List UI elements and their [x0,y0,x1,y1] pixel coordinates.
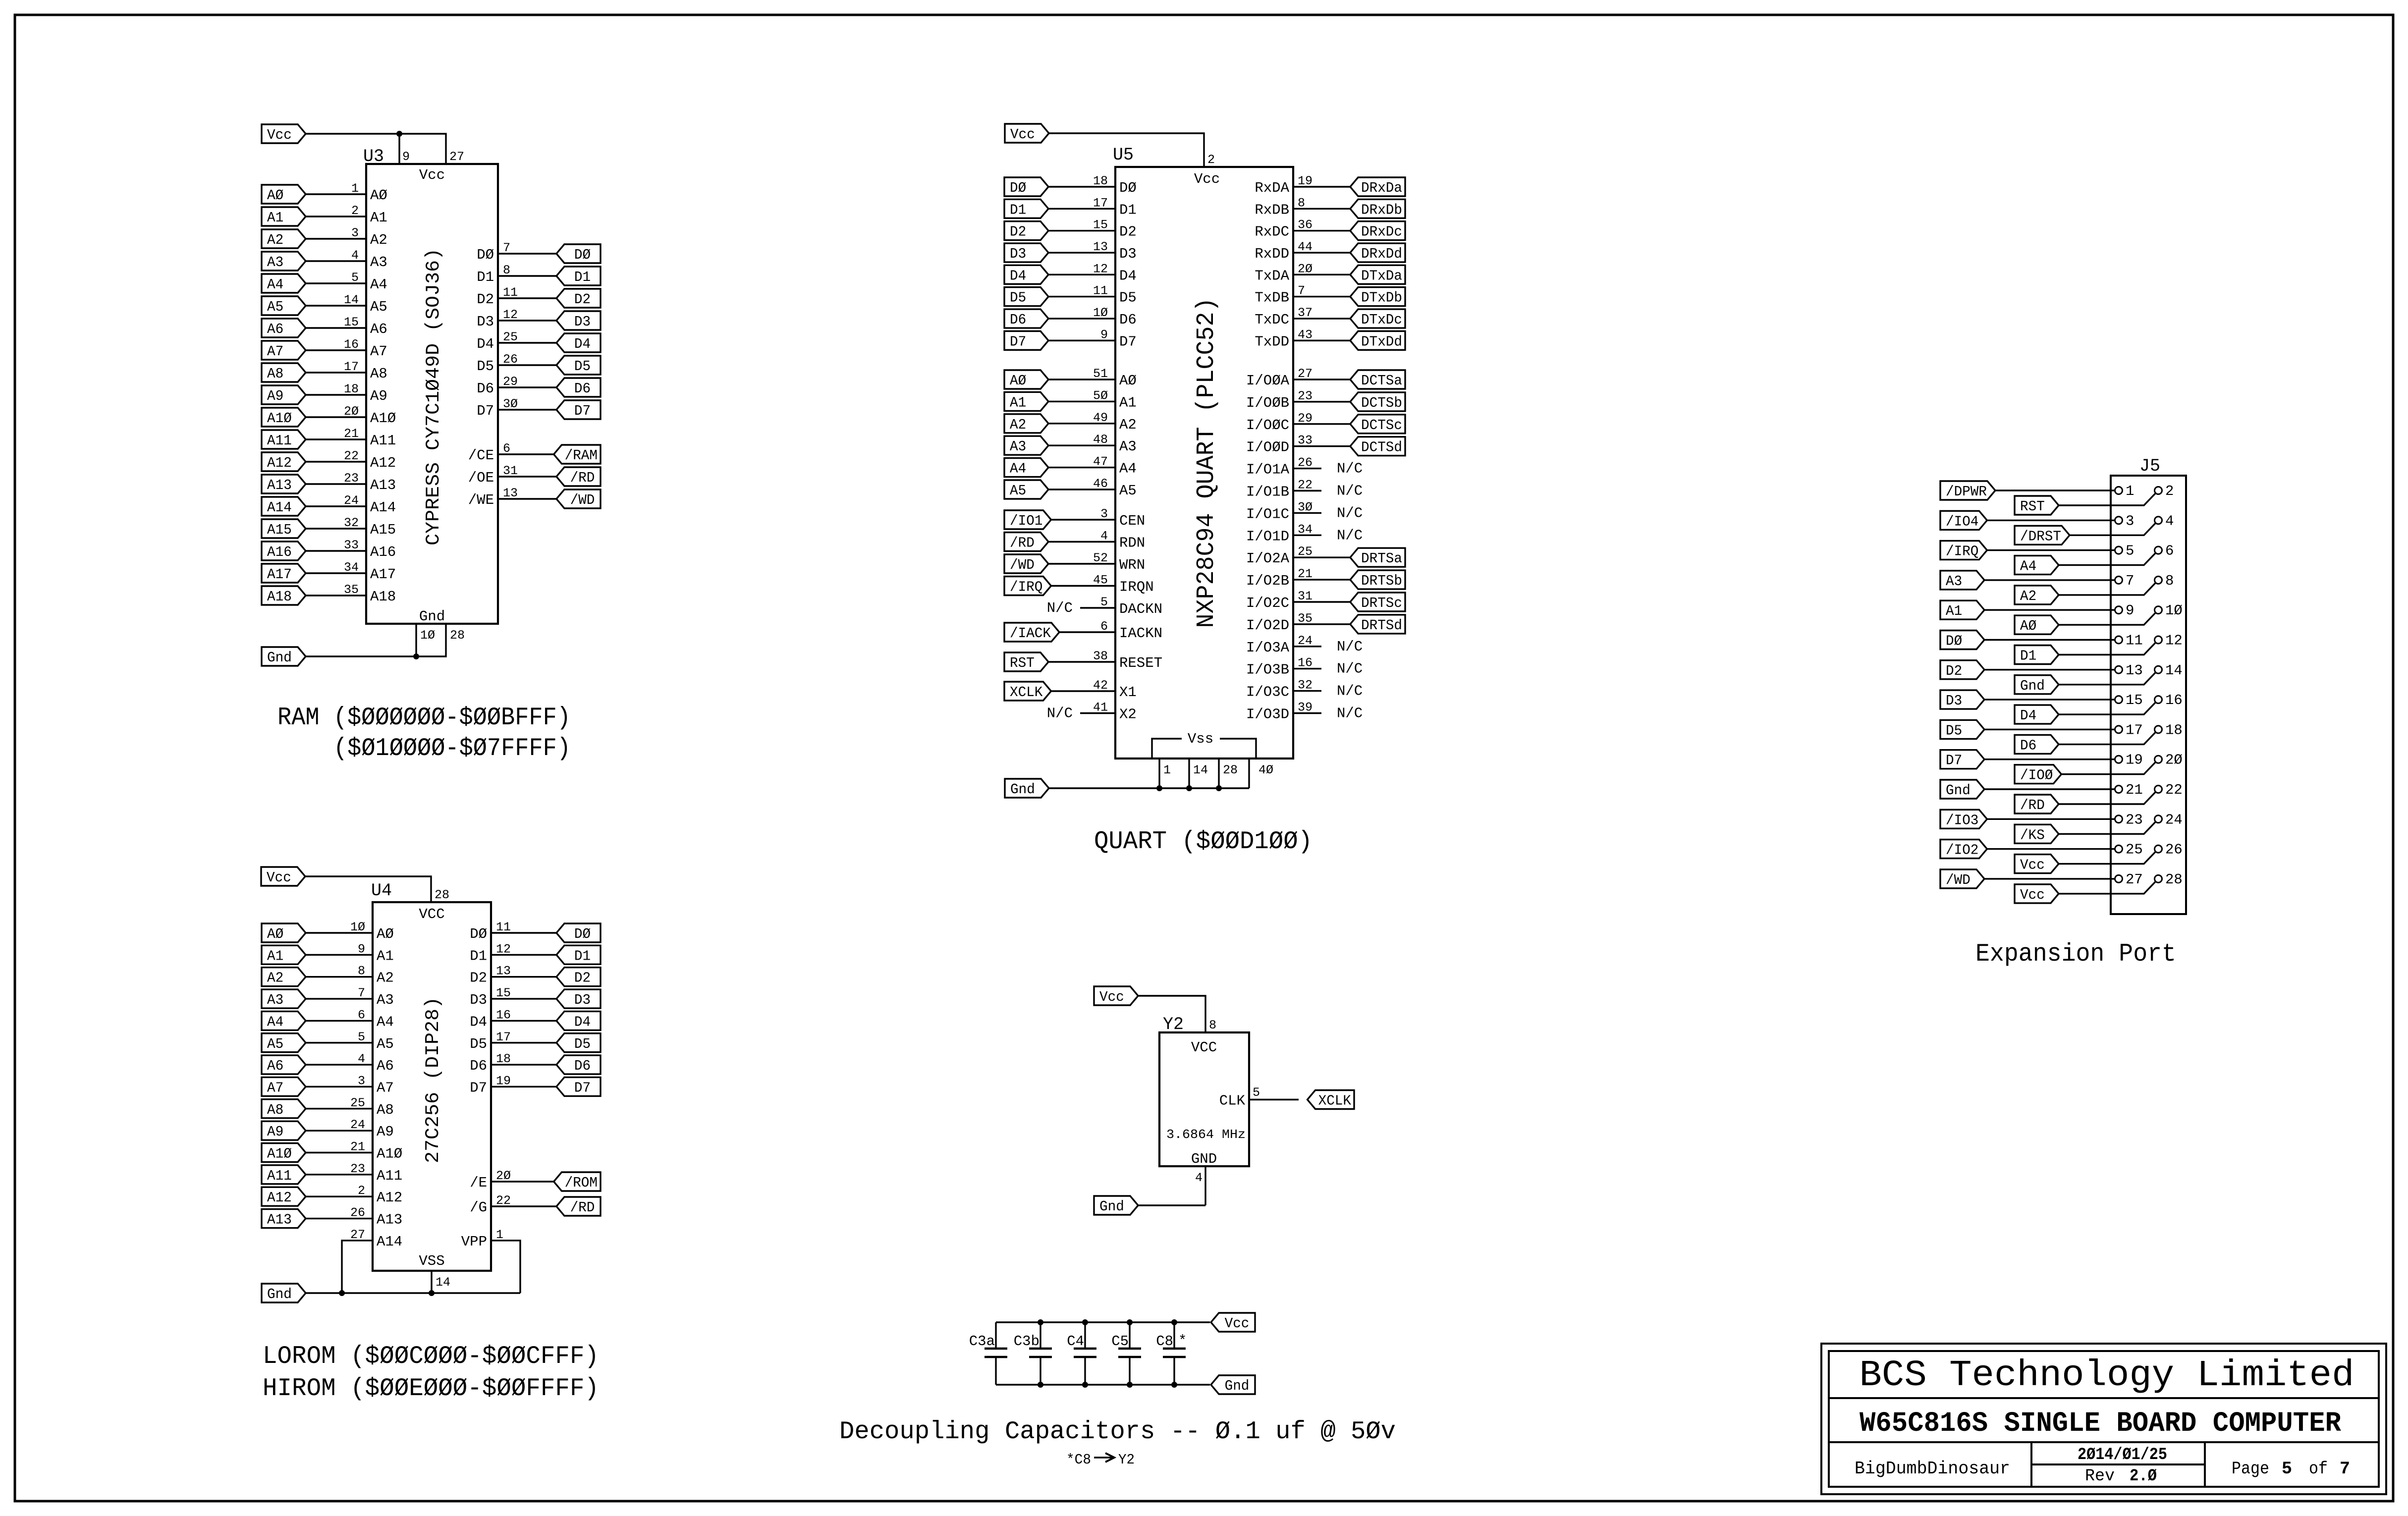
svg-text:44: 44 [1298,240,1313,254]
svg-text:26: 26 [2165,842,2183,858]
net flag D1 (U4 right) [556,945,601,964]
svg-text:A12: A12 [267,455,292,471]
svg-text:Gnd: Gnd [2020,678,2045,694]
net flag D0 (J5 pin 11) [1940,631,1984,650]
net flag A7 (U3) [262,341,306,360]
svg-text:D3: D3 [1010,246,1026,262]
wire U4 pin 13 [491,964,556,978]
svg-text:26: 26 [503,352,518,367]
svg-text:RxDA: RxDA [1255,180,1289,196]
wire U3 pin 32 [306,516,366,530]
svg-text:/CE: /CE [468,447,494,464]
J5 pin 11 circle [2115,636,2123,644]
wire U3 pin 29 [498,375,556,389]
svg-text:A5: A5 [267,1036,283,1052]
svg-text:D4: D4 [1119,268,1137,284]
wire U3 pin 24 [306,493,366,508]
svg-text:/IRQ: /IRQ [1946,543,1978,560]
svg-text:25: 25 [2126,842,2143,858]
svg-text:CYPRESS CY7C1Ø49D (SOJ36): CYPRESS CY7C1Ø49D (SOJ36) [423,248,444,545]
net flag A1 (J5 pin 9) [1940,600,1984,619]
svg-text:A6: A6 [377,1058,394,1074]
svg-text:42: 42 [1093,678,1108,693]
svg-text:48: 48 [1093,433,1108,447]
svg-text:21: 21 [1298,567,1313,581]
svg-text:A3: A3 [1010,438,1026,455]
wire U4 pin 8 [306,964,373,978]
svg-text:A5: A5 [377,1036,394,1052]
svg-text:1: 1 [1163,763,1171,777]
net flag /RD (J5 pin 22) [2015,795,2059,813]
wire J5 pin 4 [2070,523,2156,536]
svg-text:6: 6 [503,441,510,456]
svg-text:28: 28 [1223,763,1238,777]
net flag A2 (U5) [1004,414,1048,433]
net flag A6 (U4) [262,1055,306,1074]
wire U5 pin 45 [1051,573,1115,588]
svg-text:23: 23 [350,1162,365,1176]
net flag A5 (U4) [262,1033,306,1052]
svg-text:16: 16 [496,1008,511,1022]
wire U5 pin 23 [1293,389,1350,403]
wire U5 pin 7 [1293,284,1350,298]
net flag D3 (J5 pin 15) [1940,690,1984,709]
svg-text:D3: D3 [574,992,591,1008]
wire J5 pin 25 [1987,848,2115,850]
svg-text:4: 4 [351,248,359,263]
wire U4 pin 25 [306,1096,373,1110]
net flag D5 (J5 pin 17) [1940,720,1984,739]
net flag D2 (J5 pin 13) [1940,660,1984,679]
svg-text:33: 33 [1298,433,1313,448]
svg-text:A1: A1 [370,210,387,226]
net flag A18 (U3) [262,586,306,605]
svg-text:4Ø: 4Ø [1259,763,1273,777]
svg-text:Gnd: Gnd [419,608,445,625]
svg-text:14: 14 [344,293,359,307]
net flag A10 (U4) [262,1143,306,1162]
net flag /KS (J5 pin 24) [2015,824,2059,843]
wire J5 pin 12 [2059,643,2156,655]
svg-text:5: 5 [358,1030,365,1044]
capacitor C5 [1111,1322,1141,1385]
J5 pin 6 circle [2155,546,2162,554]
svg-text:9: 9 [1100,327,1108,342]
svg-text:Vcc: Vcc [2020,887,2045,903]
svg-text:D3: D3 [1946,693,1962,709]
svg-text:N/C: N/C [1337,661,1363,677]
net flag D3 (U5) [1004,243,1048,262]
title divider row1/row2 [1829,1397,2379,1399]
svg-text:2: 2 [351,204,359,218]
svg-text:1Ø: 1Ø [2165,602,2183,619]
svg-text:D4: D4 [574,1014,591,1030]
svg-text:34: 34 [344,560,359,575]
svg-text:29: 29 [1298,411,1313,426]
svg-text:/IO3: /IO3 [1946,812,1978,828]
svg-text:26: 26 [350,1206,365,1220]
U4 pin 14 (VSS) stub to ground rail [432,1271,450,1293]
net flag /WD (U5) [1004,554,1048,573]
svg-text:/WD: /WD [570,492,595,508]
svg-text:D6: D6 [574,380,591,397]
svg-text:A4: A4 [267,1014,283,1030]
wire U4 pin 26 [306,1206,373,1220]
svg-text:A9: A9 [267,1124,283,1140]
svg-text:2Ø: 2Ø [1298,262,1313,276]
svg-text:Gnd: Gnd [1099,1198,1124,1215]
svg-text:D2: D2 [1946,663,1962,679]
net flag A3 (U3) [262,252,306,271]
svg-text:/WE: /WE [468,492,494,508]
wire J5 pin 18 [2059,732,2156,745]
wire U3 pin 7 [498,241,556,255]
net flag A0 (J5 pin 10) [2015,615,2059,634]
wire U5 pin 48 [1048,433,1115,447]
svg-text:A9: A9 [267,388,283,404]
wire J5 pin 20 [2061,762,2155,774]
svg-text:DTxDb: DTxDb [1361,290,1402,306]
svg-text:J5: J5 [2139,456,2160,476]
svg-text:I/O3D: I/O3D [1246,706,1289,723]
svg-text:28: 28 [2165,871,2183,888]
svg-text:C3b: C3b [1014,1333,1040,1350]
wire U3 pin 17 [306,360,366,374]
svg-text:18: 18 [1093,174,1108,188]
IC U5 NXP28C94 QUART body [1113,145,1293,758]
junction dot cap top x=2370 [1171,1319,1177,1325]
wire U4 pin 23 [306,1162,373,1176]
svg-text:34: 34 [1298,522,1313,537]
wire U3 pin 31 [498,464,556,478]
svg-text:X2: X2 [1119,706,1137,723]
IC U3 CYPRESS CY7C1049D body [363,147,498,625]
title block inner box [1829,1351,2379,1487]
svg-text:8: 8 [1209,1018,1216,1032]
U5 pin 40 (Vss) stub [1249,758,1273,788]
svg-text:D1: D1 [1010,202,1026,218]
wire U4 pin 20 [491,1169,554,1183]
svg-text:23: 23 [1298,389,1313,403]
wire U5 pin 29 [1293,411,1350,426]
wire U5 pin 43 [1293,327,1350,342]
net flag A3 (J5 pin 7) [1940,571,1984,590]
wire U5 pin 4 [1048,529,1115,543]
svg-text:IRQN: IRQN [1119,579,1154,596]
svg-text:D4: D4 [2020,707,2036,724]
net flag XCLK (U5) [1004,682,1051,701]
svg-text:/IO4: /IO4 [1946,513,1978,530]
svg-text:D4: D4 [1010,268,1026,284]
svg-text:DRxDa: DRxDa [1361,180,1402,196]
svg-text:DØ: DØ [477,247,494,263]
svg-text:C5: C5 [1111,1333,1129,1350]
U5 Vss bracket [1152,731,1256,758]
wire J5 pin 14 [2059,672,2156,685]
wire U3 pin 15 [306,315,366,329]
svg-text:7: 7 [358,986,365,1000]
svg-text:A4: A4 [267,276,283,293]
net flag A10 (U3) [262,408,306,427]
svg-text:D1: D1 [477,269,494,285]
wire J5 pin 6 [2059,553,2156,565]
wire U3 pin 13 [498,486,556,500]
wire U3 pin 12 [498,308,556,322]
svg-text:6: 6 [2165,543,2174,559]
svg-text:15: 15 [2126,692,2143,708]
svg-text:A7: A7 [370,343,387,360]
svg-text:47: 47 [1093,455,1108,469]
svg-text:35: 35 [344,583,359,597]
svg-text:A5: A5 [1119,483,1137,499]
svg-text:DØ: DØ [1119,180,1137,196]
U5 pin 28 (Vss) stub [1219,758,1238,788]
net flag A0 (U4) [262,923,306,942]
svg-text:DØ: DØ [1010,180,1026,196]
title date/rev divider [2031,1463,2205,1465]
svg-text:A3: A3 [267,992,283,1008]
svg-text:AØ: AØ [267,926,283,942]
svg-text:A2: A2 [2020,588,2036,604]
svg-text:1Ø: 1Ø [350,920,365,934]
junction dot Vss rail x=2340 [1156,785,1162,791]
wire U5 pin 46 [1048,477,1115,491]
power flag Vcc (U4) [261,867,305,886]
J5 pin 15 circle [2115,696,2123,704]
J5 pin 4 circle [2155,517,2162,524]
svg-text:D6: D6 [1010,312,1026,328]
net flag DTxDc (U5 right) [1350,309,1405,328]
svg-text:A18: A18 [267,589,292,605]
wire U3 pin 11 [498,285,556,300]
wire U5 pin 21 [1293,567,1350,581]
wire U5 pin 10 [1048,306,1115,320]
capacitor top rail (Vcc) [996,1321,1210,1323]
J5 pin 14 circle [2155,666,2162,673]
J5 pin 18 circle [2155,726,2162,733]
wire U5 pin 31 [1293,589,1350,603]
wire U5 pin 9 [1048,327,1115,342]
wire U3 pin 14 [306,293,366,307]
wire U5 pin 52 [1048,551,1115,565]
svg-text:DRTSb: DRTSb [1361,573,1402,589]
svg-text:A14: A14 [377,1234,402,1250]
svg-text:D5: D5 [574,1036,591,1052]
wire J5 pin 26 [2059,852,2156,864]
junction dot cap top x=2280 [1127,1319,1133,1325]
J5 pin 7 circle [2115,576,2123,584]
svg-text:A8: A8 [377,1102,394,1118]
wire U4 pin 3 [306,1074,373,1088]
svg-text:A3: A3 [1119,438,1137,455]
svg-text:A15: A15 [267,522,292,538]
net flag /RD (U3 right) [556,467,601,486]
svg-text:3: 3 [1100,507,1108,521]
svg-text:D1: D1 [1119,202,1137,218]
wire U3 pin 30 [498,397,556,411]
svg-text:A8: A8 [267,1102,283,1118]
net flag D1 (U3 right) [556,267,601,285]
svg-text:A13: A13 [377,1212,402,1228]
svg-text:A3: A3 [267,254,283,271]
svg-text:45: 45 [1093,573,1108,588]
svg-text:D4: D4 [477,336,494,352]
wire U5 pin 13 [1048,240,1115,254]
svg-text:49: 49 [1093,411,1108,425]
svg-text:N/C: N/C [1047,705,1073,722]
svg-text:IACKN: IACKN [1119,625,1162,642]
svg-text:A2: A2 [267,232,283,248]
svg-text:RST: RST [1010,655,1035,671]
svg-text:38: 38 [1093,649,1108,663]
net flag A12 (U3) [262,452,306,471]
svg-text:C3a: C3a [969,1333,995,1350]
svg-text:3: 3 [358,1074,365,1088]
svg-text:/RAM: /RAM [565,447,598,464]
svg-text:2Ø: 2Ø [2165,752,2183,768]
U4 pin 1 (VPP) wire to ground rail [491,1228,520,1293]
svg-text:A4: A4 [370,276,387,293]
svg-text:N/C: N/C [1337,683,1363,700]
svg-text:/OE: /OE [468,470,494,486]
svg-text:BigDumbDinosaur: BigDumbDinosaur [1855,1459,2010,1479]
wire U5 pin 36 [1293,218,1350,232]
svg-text:15: 15 [496,986,511,1000]
J5 pin 1 circle [2115,487,2123,494]
wire U4 pin 17 [491,1030,556,1044]
svg-text:52: 52 [1093,551,1108,565]
svg-text:25: 25 [350,1096,365,1110]
wire U3 pin 1 [306,181,366,196]
net flag Gnd (J5 pin 14) [2015,675,2059,694]
svg-text:Decoupling Capacitors -- Ø.1 u: Decoupling Capacitors -- Ø.1 uf @ 5Øv [839,1418,1396,1446]
J5 pin 19 circle [2115,756,2123,763]
wire U5 pin 19 [1293,174,1350,188]
wire U3 pin 8 [498,263,556,277]
svg-text:13: 13 [503,486,518,500]
svg-text:11: 11 [2126,633,2143,649]
svg-text:A1: A1 [267,210,283,226]
svg-text:12: 12 [503,308,518,322]
net flag D5 (U5) [1004,287,1048,306]
svg-text:17: 17 [496,1030,511,1044]
svg-text:RESET: RESET [1119,655,1162,671]
J5 pin 9 circle [2115,606,2123,614]
wire J5 pin 2 [2059,493,2156,505]
J5 pin 3 circle [2115,517,2123,524]
wire U4 pin 11 [491,920,556,934]
net flag DRTSb (U5 right) [1350,570,1405,589]
J5 pin 24 circle [2155,815,2162,823]
svg-text:Vcc: Vcc [267,127,292,143]
svg-text:9: 9 [358,942,365,956]
junction dot Vcc/pin9 [396,131,402,137]
svg-text:5: 5 [2126,543,2134,559]
svg-text:/DPWR: /DPWR [1946,484,1987,500]
svg-text:VSS: VSS [419,1253,444,1269]
wire U5 pin 15 [1048,218,1115,232]
wire U5 pin 37 [1293,306,1350,320]
svg-text:/RD: /RD [570,470,595,486]
net flag D7 (J5 pin 19) [1940,750,1984,769]
junction dot cap top x=2100 [1038,1319,1043,1325]
svg-text:DTxDd: DTxDd [1361,333,1402,350]
wire U5 pin 18 [1048,174,1115,188]
svg-text:*C8: *C8 [1066,1452,1091,1468]
svg-text:of: of [2309,1459,2328,1479]
svg-text:TxDB: TxDB [1255,290,1289,306]
net flag A14 (U3) [262,497,306,516]
svg-text:Vcc: Vcc [419,167,445,183]
svg-text:Vcc: Vcc [1099,989,1124,1005]
J5 pin 21 circle [2115,786,2123,793]
svg-text:9: 9 [2126,602,2134,619]
svg-text:D5: D5 [1119,290,1137,306]
wire U3 pin 34 [306,560,366,575]
wire J5 pin 5 [1987,549,2115,551]
svg-text:A1Ø: A1Ø [377,1146,402,1162]
svg-text:Expansion Port: Expansion Port [1975,940,2176,969]
J5 pin 20 circle [2155,756,2162,763]
net flag A15 (U3) [262,519,306,538]
wire J5 pin 10 [2059,613,2156,625]
U5 pin 32 N/C stub [1293,678,1363,700]
svg-text:I/O2C: I/O2C [1246,595,1289,611]
svg-text:CLK: CLK [1219,1093,1246,1109]
svg-text:DRxDd: DRxDd [1361,246,1402,262]
net flag A3 (U4) [262,989,306,1008]
svg-text:DTxDa: DTxDa [1361,268,1402,284]
svg-text:A2: A2 [267,970,283,986]
J5 pin 26 circle [2155,845,2162,853]
net flag XCLK (Y2) [1308,1090,1354,1109]
svg-text:GND: GND [1191,1151,1217,1167]
svg-text:D7: D7 [1119,333,1137,350]
title divider row2/row3 [1829,1441,2379,1443]
svg-text:A1: A1 [1010,394,1026,411]
U5 pin 1 (Vss) stub [1159,758,1171,788]
svg-text:A13: A13 [370,477,396,493]
net flag /IO0 (J5 pin 20) [2015,765,2061,784]
svg-text:A2: A2 [1010,417,1026,433]
svg-text:($Ø1ØØØØ-$Ø7FFFF): ($Ø1ØØØØ-$Ø7FFFF) [333,735,571,763]
svg-text:D7: D7 [470,1080,487,1096]
svg-text:RxDC: RxDC [1255,224,1289,240]
svg-text:A11: A11 [370,433,396,449]
svg-text:I/O3B: I/O3B [1246,662,1289,678]
svg-text:/IACK: /IACK [1010,625,1051,642]
net flag A3 (U5) [1004,436,1048,455]
svg-text:2Ø: 2Ø [496,1169,511,1183]
svg-text:31: 31 [1298,589,1313,603]
svg-text:16: 16 [1298,656,1313,670]
svg-text:D5: D5 [574,358,591,375]
net flag /DPWR (J5 pin 1) [1940,481,1995,500]
svg-text:3Ø: 3Ø [1298,500,1313,514]
svg-text:22: 22 [2165,782,2183,798]
net flag D4 (U3 right) [556,333,601,352]
svg-text:A14: A14 [267,499,292,516]
svg-text:8: 8 [2165,573,2174,589]
svg-text:3: 3 [351,226,359,240]
svg-text:5: 5 [2282,1459,2292,1479]
svg-text:/DRST: /DRST [2020,528,2061,544]
svg-text:D3: D3 [470,992,487,1008]
svg-text:3: 3 [2126,513,2134,529]
svg-text:D7: D7 [1010,333,1026,350]
wire J5 pin 13 [1984,669,2115,670]
capacitor bottom rail (Gnd) [996,1384,1210,1385]
